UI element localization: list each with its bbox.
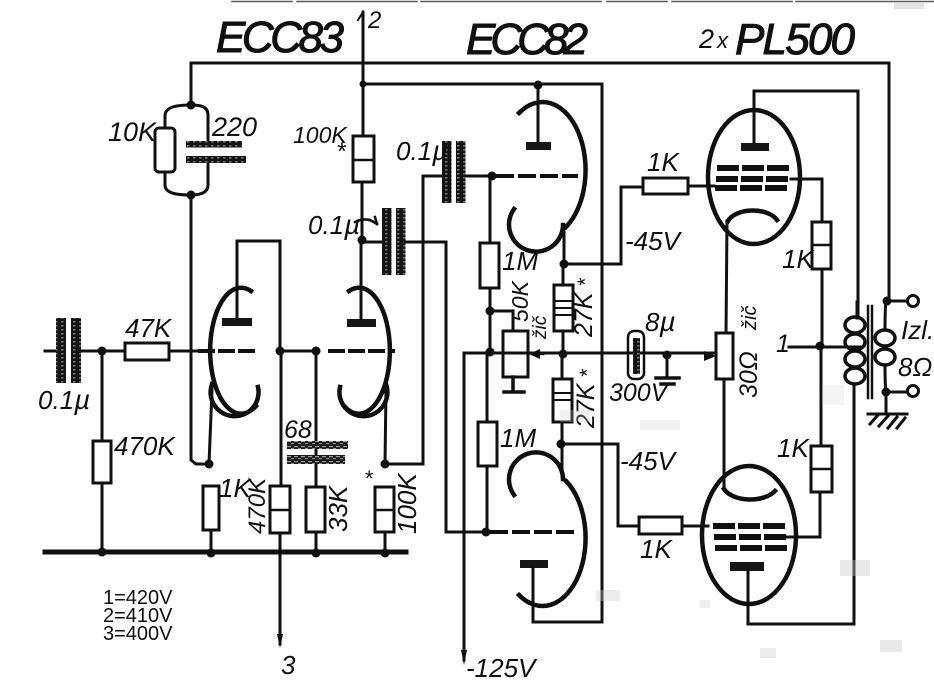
- tube PL500 upper envelope: [708, 110, 800, 244]
- divider: [812, 244, 831, 247]
- junction: 33K at bus: [312, 549, 321, 558]
- smudged note line 1: [287, 441, 348, 449]
- junction: top of 10K/220: [187, 101, 196, 110]
- capacitor 0.1u (anode coupling) plate left: [382, 208, 392, 275]
- junction: -125V rail at 1M chain: [486, 348, 495, 357]
- junction: grid1 node: [488, 172, 497, 181]
- wire: center tap: [789, 346, 862, 349]
- smudged note line 2: [287, 455, 345, 464]
- wire: 1K screen to center tap junction: [821, 269, 824, 346]
- PL500 lower cathode arc: [724, 489, 775, 499]
- transformer secondary winding: [875, 330, 895, 365]
- junction: triode1 anode / triode2 grid node: [276, 347, 285, 356]
- wire: ECC83 triode1 cathode lead: [209, 390, 212, 464]
- terminal output cold: [908, 386, 919, 397]
- junction: lower grid node: [482, 528, 491, 537]
- wire: ECC82 triode1 cathode lead: [563, 229, 566, 264]
- divider 27K lower: [553, 393, 572, 400]
- resistor 1M lower: [478, 422, 497, 466]
- junction: rail2 at node2 line: [360, 81, 367, 88]
- resistor 1K screen lower: [811, 446, 832, 492]
- wire: to chassis ground: [885, 392, 888, 413]
- transformer primary winding: [845, 317, 865, 384]
- wire: ECC83 triode2 cathode lead: [385, 390, 386, 464]
- wire: 1M lower leads: [486, 352, 489, 532]
- junction: bottom of 10K/220: [187, 191, 196, 200]
- ECC83 triode2 anode plate: [347, 319, 376, 327]
- junction: output cold node: [882, 388, 891, 397]
- terminal output hot: [908, 296, 919, 307]
- wire: 470K-2 bottom through bus to node 3: [279, 533, 282, 644]
- wire: cap2 to ECC82 grid1 junction: [465, 175, 492, 178]
- 30 ohm pot wiper arrow: [704, 351, 716, 361]
- capacitor 0.1u input plate right: [71, 318, 81, 383]
- wire: 100K bottom to anode node: [361, 182, 364, 239]
- divider of 100K-1: [353, 159, 374, 162]
- resistor 27K lower: [553, 379, 572, 422]
- wire: -125V feed down: [463, 353, 466, 660]
- wire: lower anode to transformer primary bottom: [748, 384, 854, 624]
- PL500 lower anode plate: [730, 562, 764, 571]
- ECC82 triode2 grid (dashed): [492, 530, 576, 534]
- resistor 100K cathode load: [375, 487, 394, 532]
- ECC83 triode2 cathode arc: [339, 384, 387, 416]
- wire: 33K to bus: [315, 532, 318, 553]
- PL500 upper cathode arc: [728, 210, 777, 221]
- wire: 470K to ground bus: [101, 483, 104, 552]
- junction: ECC82 upper anode tap: [534, 81, 543, 90]
- capacitor 0.1u (anode coupling) plate right: [396, 208, 406, 275]
- wire: ECC83 triode1 anode lead up and over: [237, 241, 280, 348]
- wire: parallel loop left branch: [165, 105, 191, 195]
- op: ECC82 triode 1 envelope: [519, 102, 586, 227]
- op: ECC83 triode 1 envelope: [210, 288, 256, 414]
- divider: [811, 468, 832, 471]
- wire: 470K-2 top lead: [280, 351, 283, 486]
- junction: 1K at bus: [207, 549, 216, 558]
- op: ECC83 triode 2 envelope: [344, 288, 390, 414]
- wire: grid node down to 470K: [101, 351, 104, 441]
- wire: anode node to coupling cap1: [362, 241, 382, 244]
- wire: cap1 to lower ECC82 grid: [405, 242, 481, 532]
- wire: 100K-2 to bus: [384, 532, 387, 553]
- wire: cathode to feedback cap 0.1u (to ECC82 grid1): [385, 176, 443, 464]
- wire: to triode2 grid junction: [280, 350, 316, 353]
- wire: 33K top lead: [315, 351, 318, 487]
- wire: secondary bottom lead: [885, 365, 886, 392]
- resistor 1K screen upper: [812, 222, 831, 269]
- wire: input cap to grid junction: [80, 350, 125, 353]
- capacitor 0.1u input plate left: [56, 318, 66, 383]
- divider of 470K-2: [270, 509, 290, 512]
- wire: cathode to 1K grid stopper (upper PL500): [564, 187, 643, 264]
- junction: 100K-2 at bus: [381, 549, 390, 558]
- junction: cathode/1K node: [205, 460, 214, 469]
- resistor 1K grid stopper lower: [639, 517, 682, 534]
- junction: input grid node: [98, 347, 107, 356]
- resistor 1M upper: [480, 243, 499, 288]
- junction: cathodyne anode node: [358, 236, 367, 245]
- wire: lower screen tap to 1K: [784, 492, 820, 537]
- junction: 470K at bus: [98, 548, 107, 557]
- resistor 10K: [155, 128, 175, 172]
- wire: rail1 down to 10K top junction: [190, 63, 193, 105]
- ECC83 triode1 anode plate: [222, 318, 252, 326]
- junction: upper bias node: [560, 260, 569, 269]
- junction: ground node of 8u: [663, 351, 672, 360]
- resistor 33K: [306, 487, 325, 532]
- wire: lower bias to 1K grid stopper: [561, 444, 639, 526]
- node 2 arrow tick: [358, 12, 363, 20]
- ECC82 triode2 anode plate: [520, 560, 548, 568]
- resistor 27K upper: [554, 285, 573, 331]
- resistor 47K: [125, 343, 169, 360]
- scan speckle overlay: [0, 0, 1, 1]
- wire: to output terminal cold: [886, 391, 907, 394]
- wire: tap to 50K pot: [490, 311, 513, 331]
- wire: primary top lead: [856, 302, 859, 318]
- wire: ECC82 triode2 cathode lead: [561, 444, 564, 476]
- ground bus: [45, 550, 406, 555]
- wire: to output terminal: [887, 300, 907, 303]
- wire: upper ECC82 anode lead: [537, 85, 540, 142]
- transformer core: [868, 306, 872, 398]
- arrow to cap1: [355, 217, 377, 224]
- ECC82 triode2 cathode arc: [509, 452, 563, 495]
- wire: ECC83 triode2 anode lead: [360, 241, 363, 319]
- wire: 1K screen lower to center tap junction: [820, 346, 823, 446]
- capacitor 8u inner electrode: [633, 338, 640, 374]
- wire: 47K to ECC83 grid: [169, 350, 198, 353]
- wire: screen tap to 1K: [791, 179, 822, 222]
- junction: 27K chain at rail: [559, 350, 568, 359]
- wire: B+ rail 2 to ECC82 anodes: [363, 84, 602, 622]
- resistor 470K (second): [270, 486, 290, 533]
- wire: grid1 node down through 1M: [489, 176, 492, 352]
- junction: cathodyne cathode node: [381, 460, 390, 469]
- junction: lower bias node: [557, 440, 566, 449]
- capacitor 220 plate (bottom): [186, 156, 246, 163]
- divider 27K upper: [554, 301, 573, 315]
- ground (pot): [504, 377, 524, 392]
- -125V arrowhead: [461, 650, 467, 665]
- junction: output hot node: [883, 297, 892, 306]
- wire: 1K to PL500 grid: [688, 185, 714, 188]
- wire: upper PL500 anode top lead to transformer: [754, 91, 858, 318]
- op: ECC82 triode 2 envelope: [519, 481, 586, 606]
- PL500 lower grid rows: [716, 523, 784, 529]
- capacitor 0.1u (cathode coupling) plate right: [456, 141, 466, 203]
- scan noise: [560, 3, 924, 658]
- ECC82 triode1 anode plate: [526, 142, 551, 150]
- ECC83 triode1 grid (dashed): [200, 349, 258, 353]
- ECC82 triode1 grid (dashed): [498, 174, 576, 178]
- tube PL500 lower envelope: [702, 466, 796, 604]
- wire: secondary top lead: [885, 301, 886, 330]
- wire: pot bottom to ground: [512, 377, 515, 391]
- PL500 upper anode plate: [741, 143, 769, 151]
- resistor 1K cathode: [203, 486, 219, 530]
- PL500 upper grid rows: [720, 165, 790, 171]
- capacitor 220 plate (top): [186, 141, 242, 148]
- capacitor 8u electrolytic outline: [628, 331, 644, 379]
- junction: center tap node 1: [816, 342, 825, 351]
- wire: -125V rail: [464, 352, 716, 355]
- wire: ECC82 triode2 anode lead (to rail2 riser): [532, 568, 535, 622]
- ECC83 triode2 grid (dashed): [330, 349, 393, 353]
- node 3 arrowhead: [277, 634, 283, 648]
- wire: 1K to lower PL500 grid: [682, 525, 708, 528]
- resistor 1K grid stopper upper: [643, 178, 688, 194]
- junction: pot tap node: [486, 307, 495, 316]
- wire: 1K to bus: [210, 530, 213, 552]
- wire: down to ground: [666, 355, 669, 377]
- potentiometer 30 ohm body: [716, 333, 733, 379]
- divider of 100K-2: [375, 509, 394, 512]
- capacitor 0.1u (cathode coupling) plate left: [442, 141, 452, 203]
- junction: 33K node: [312, 347, 321, 356]
- ground (chassis): [868, 414, 907, 428]
- node 2 (410V supply) vertical wire: [362, 12, 365, 136]
- resistor 470K: [93, 441, 111, 483]
- wire: pot bottom to lower PL500 cathode: [723, 379, 726, 489]
- wire: 10K/220 down to ECC83 cathode junction: [191, 195, 208, 464]
- wire: 27K lower leads: [561, 354, 564, 444]
- ECC83 triode1 cathode arc: [211, 384, 259, 416]
- resistor 100K plate load: [353, 136, 374, 182]
- ECC82 triode1 cathode arc: [509, 209, 563, 252]
- wire: upper cathode lead down to 30ohm pot: [726, 221, 727, 333]
- wire: parallel loop right branch: [191, 105, 208, 195]
- ground (8u): [656, 378, 679, 384]
- wire: feedback rail from output terminal to 10K/220 network: [191, 63, 889, 299]
- pot wiper arrow: [532, 353, 543, 356]
- scan artifact: top edge line: [232, 1, 934, 3]
- wire: 27K upper leads: [562, 264, 565, 354]
- potentiometer 50K body: [503, 331, 528, 377]
- wire: input lead: [45, 350, 56, 353]
